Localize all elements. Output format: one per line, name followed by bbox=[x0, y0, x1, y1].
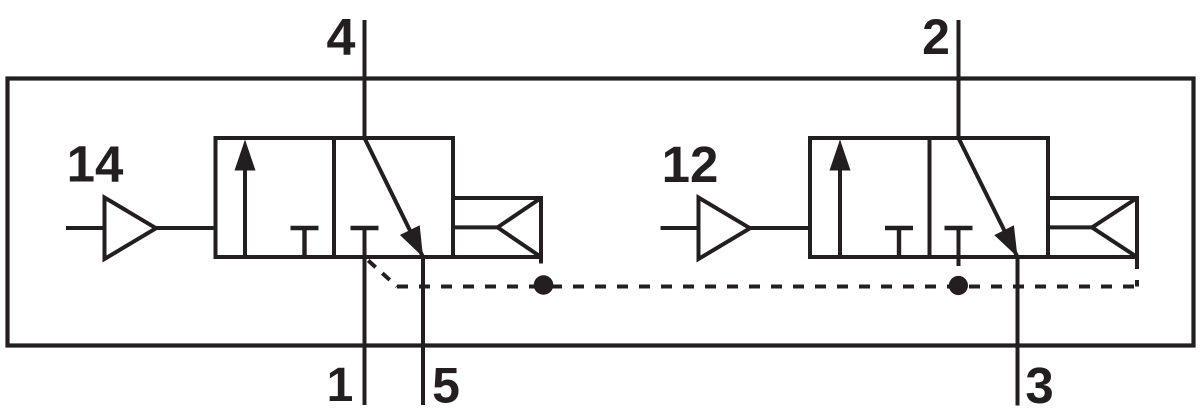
pilot actuator triangle 14 bbox=[105, 198, 157, 260]
dashed vertical riser to V2 spring box bbox=[1135, 257, 1139, 287]
svg-text:14: 14 bbox=[67, 136, 124, 193]
blocked port 1 symbol (T bar) in V1 right position bbox=[351, 226, 379, 230]
flow arrow 1->2 in V2 left position bbox=[830, 140, 851, 258]
wire: port 3 line bbox=[1016, 257, 1020, 406]
svg-text:12: 12 bbox=[662, 136, 719, 193]
pneumatic spring return box of V1 bbox=[453, 198, 541, 257]
wire: pilot 12 to valve body bbox=[750, 226, 810, 230]
wire: port 2 line bbox=[957, 20, 961, 140]
blocked port 1 symbol (T bar) in V2 right position bbox=[945, 226, 973, 230]
valve V2 body (two position boxes) bbox=[810, 138, 1048, 257]
svg-text:1: 1 bbox=[327, 359, 354, 412]
junction dot: pilot branch to V2 supply bbox=[949, 276, 968, 295]
blocked port 5 symbol (T) in V1 left position bbox=[291, 228, 319, 257]
flow path 4->5 with arrow in V1 right position bbox=[365, 138, 424, 257]
stub from spring box corner toward pilot junction bbox=[539, 257, 543, 264]
pilot actuator triangle 12 bbox=[699, 198, 751, 260]
junction dot: pilot branch to V1 spring side bbox=[534, 275, 554, 295]
dashed internal pilot supply: diagonal from port 1 bbox=[366, 259, 397, 287]
enclosure frame of valve assembly bbox=[8, 79, 1194, 346]
blocked port 3 symbol (T) in V2 left position bbox=[885, 228, 913, 257]
valve V1 body (two position boxes) bbox=[216, 138, 454, 257]
svg-text:2: 2 bbox=[922, 9, 950, 65]
wire: port 4 line bbox=[363, 20, 367, 140]
wire: pilot 12 lead-in bbox=[661, 226, 699, 230]
svg-text:4: 4 bbox=[327, 9, 356, 67]
flow arrow 1->4 in V1 left position bbox=[235, 140, 256, 258]
wire: port 5 line bbox=[421, 257, 425, 405]
wire: V2 supply stem down to pilot junction bbox=[957, 228, 961, 266]
dashed internal pilot supply: horizontal run bbox=[397, 285, 1137, 289]
flow path 2->3 with arrow in V2 right position bbox=[959, 138, 1018, 257]
wire: pilot 14 to valve body bbox=[156, 226, 216, 230]
svg-text:3: 3 bbox=[1025, 357, 1053, 414]
pneumatic spring return box of V2 bbox=[1048, 198, 1137, 257]
svg-text:5: 5 bbox=[432, 358, 460, 414]
wire: port 1 line (T stem continuing below enclosure) bbox=[363, 228, 367, 405]
wire: pilot 14 lead-in bbox=[66, 226, 105, 230]
